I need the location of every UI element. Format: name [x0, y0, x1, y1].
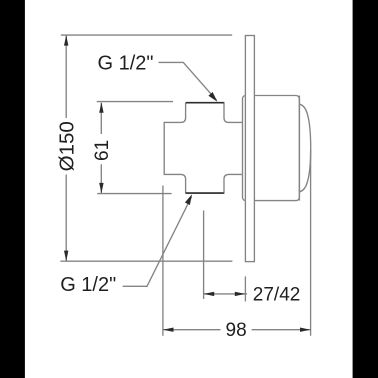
arrow 98 right	[300, 328, 311, 332]
svg-text:G 1/2": G 1/2"	[98, 53, 154, 75]
arrow Ø150 down	[64, 251, 68, 262]
dim 61 dimension line	[100, 103, 102, 193]
dim 98 right extension line	[310, 150, 312, 336]
svg-text:G 1/2": G 1/2"	[60, 274, 116, 296]
arrow 27/42 right	[235, 292, 246, 296]
svg-text:27/42: 27/42	[253, 285, 301, 306]
wall plate edge view	[245, 36, 254, 262]
box right edge full	[298, 96, 300, 201]
dim 98 left extension line	[162, 186, 164, 336]
dim Ø150 top extension line	[61, 34, 232, 36]
dim 98 dimension line	[163, 329, 311, 331]
svg-text:98: 98	[226, 320, 247, 341]
leader line bottom G 1/2	[123, 197, 192, 287]
cross-shaped valve body with two ports	[164, 103, 242, 193]
dim 27/42 dimension line	[204, 293, 248, 295]
arrow Ø150 up	[64, 35, 68, 46]
svg-text:61: 61	[92, 140, 113, 161]
dim 61 bottom extension line	[97, 193, 171, 195]
arrow 61 up	[99, 102, 103, 113]
bottom port end face (dark heavy edge)	[186, 192, 224, 194]
dim Ø150 bottom extension line	[60, 260, 232, 262]
arrow 98 left	[163, 328, 174, 332]
dome arc on right of box	[299, 104, 310, 192]
svg-text:Ø150: Ø150	[55, 121, 78, 171]
dim 27/42 right extension line	[244, 276, 246, 301]
arrow 61 down	[99, 183, 103, 194]
arrow leader bottom G 1/2 (points up-right)	[185, 194, 192, 205]
dim Ø150 dimension line	[65, 35, 67, 261]
leader line top G 1/2	[159, 62, 217, 100]
dim 27/42 left extension line (port centerline)	[203, 211, 205, 300]
arrow 27/42 left	[204, 292, 215, 296]
left black bar	[0, 0, 25, 378]
arrow leader top G 1/2 (points down-right)	[208, 92, 217, 102]
top port end face (dark heavy edge)	[186, 102, 224, 104]
right black bar	[353, 0, 378, 378]
valve body big box (through-wall housing)	[242, 96, 299, 201]
dim 61 top extension line	[97, 101, 173, 103]
